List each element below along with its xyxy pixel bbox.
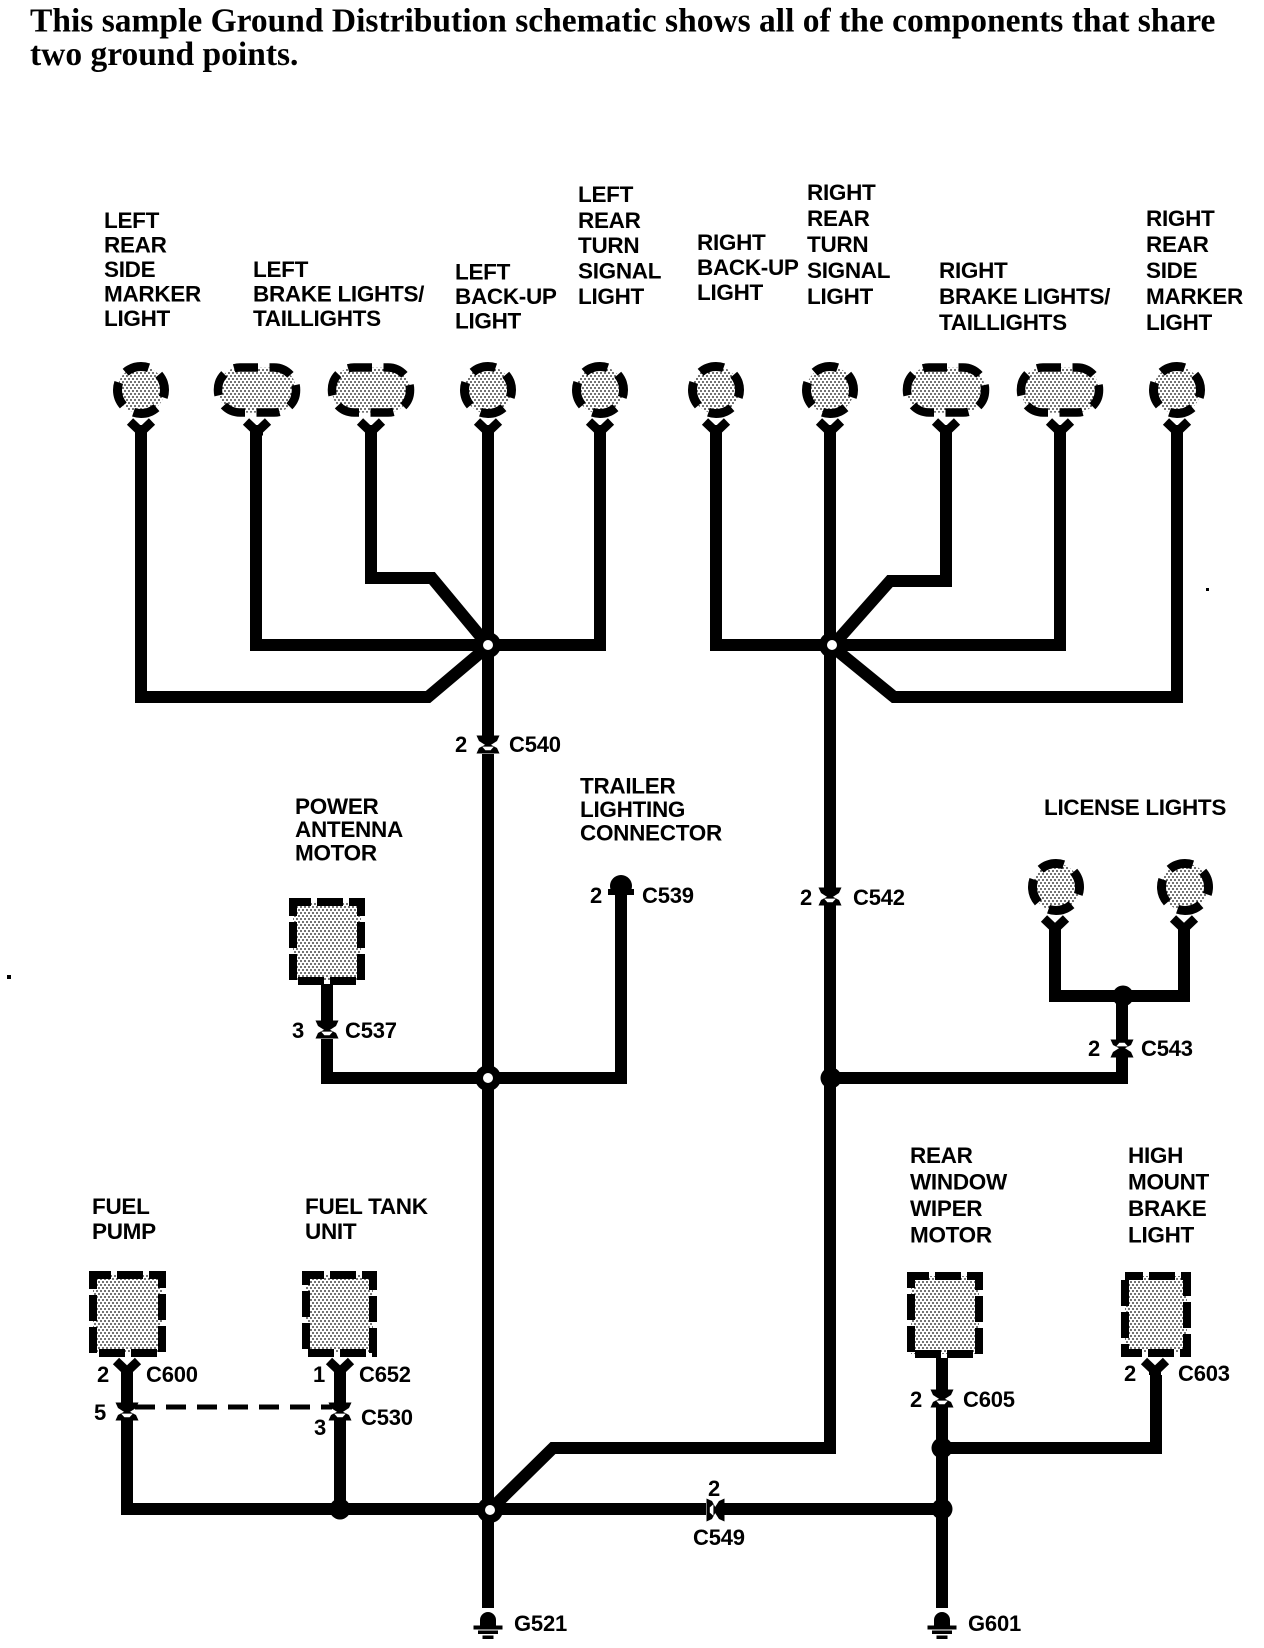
svg-text:C600: C600 bbox=[146, 1362, 198, 1387]
junction: fuel tank junction bbox=[330, 1499, 351, 1520]
lamp: right rear turn signal light bbox=[807, 367, 854, 414]
connector fork lamp terminal (right rear turn signal) bbox=[819, 422, 841, 436]
wire: rear wiper motor lead bbox=[936, 1358, 948, 1391]
svg-text:CONNECTOR: CONNECTOR bbox=[580, 821, 722, 846]
wire: left ground wire to G521 (tail) bbox=[482, 1510, 494, 1608]
pin 1 (C652) bbox=[313, 1362, 325, 1387]
connector symbol C540 bbox=[477, 736, 500, 754]
wire: right rear side marker light to right splice bbox=[834, 425, 1177, 697]
svg-text:TAILLIGHTS: TAILLIGHTS bbox=[939, 310, 1067, 335]
label: right rear turn signal light bbox=[807, 180, 891, 309]
wire: fuel tank unit lead bbox=[334, 1375, 346, 1404]
svg-text:G521: G521 bbox=[514, 1611, 567, 1636]
wire: fuel pump drop to ground bus bbox=[127, 1420, 706, 1509]
wire: power antenna motor lead bbox=[321, 984, 333, 1021]
pin 2 (C605) bbox=[910, 1387, 922, 1412]
svg-text:MARKER: MARKER bbox=[1146, 284, 1243, 309]
wire: license light right drop bbox=[1123, 928, 1184, 996]
svg-text:FUEL: FUEL bbox=[92, 1194, 150, 1219]
svg-text:LIGHT: LIGHT bbox=[578, 284, 645, 309]
connector fork lamp terminal (left brake/tail 1) bbox=[246, 422, 268, 436]
connector fork lamp terminal (left rear turn signal) bbox=[589, 422, 611, 436]
svg-text:REAR: REAR bbox=[104, 233, 167, 258]
connector fork license light left terminal bbox=[1044, 919, 1066, 933]
svg-text:2: 2 bbox=[590, 883, 602, 908]
connector fork lamp terminal (left brake/tail 2) bbox=[360, 422, 382, 436]
wire: left rear turn signal light drop bbox=[594, 425, 606, 645]
wire: power antenna motor ground branch bbox=[327, 1039, 488, 1078]
connector symbol fuel pump pin 5 connector bbox=[116, 1403, 139, 1421]
connector fork lamp terminal (left back-up) bbox=[477, 422, 499, 436]
svg-text:TURN: TURN bbox=[578, 233, 639, 258]
pin 2 (C600) bbox=[97, 1362, 109, 1387]
lamp: left rear turn signal light bbox=[577, 367, 624, 414]
lamp: right back-up light bbox=[693, 367, 740, 414]
pin 2 (C603) bbox=[1124, 1361, 1136, 1386]
svg-text:LICENSE LIGHTS: LICENSE LIGHTS bbox=[1044, 795, 1226, 820]
svg-text:UNIT: UNIT bbox=[305, 1219, 357, 1244]
connector label C543 bbox=[1141, 1036, 1193, 1061]
junction: wiper/high-mount junction bbox=[932, 1438, 953, 1459]
junction (splice): central ground bus splice G521 node bbox=[477, 1497, 503, 1523]
connector label C603 bbox=[1178, 1361, 1230, 1386]
lamp: left brake/taillight 1 bbox=[218, 368, 296, 413]
pin 3 (C537) bbox=[292, 1018, 304, 1043]
speckle bbox=[7, 588, 1209, 979]
svg-text:2: 2 bbox=[1124, 1361, 1136, 1386]
svg-text:LEFT: LEFT bbox=[455, 260, 511, 285]
junction (splice): left upper splice bbox=[475, 632, 501, 658]
svg-text:LIGHT: LIGHT bbox=[697, 280, 764, 305]
component box: power antenna motor bbox=[293, 902, 361, 981]
svg-text:WIPER: WIPER bbox=[910, 1196, 982, 1221]
svg-text:BACK-UP: BACK-UP bbox=[697, 255, 799, 280]
connector symbol C542 bbox=[819, 888, 842, 906]
junction: right mid splice (license lights) bbox=[821, 1068, 842, 1089]
wire: high mount brake light drop bbox=[936, 1375, 1156, 1448]
label: high mount brake light bbox=[1128, 1143, 1210, 1248]
svg-text:BRAKE: BRAKE bbox=[1128, 1196, 1207, 1221]
svg-text:RIGHT: RIGHT bbox=[807, 180, 876, 205]
connector label C652 bbox=[359, 1362, 411, 1387]
connector label C530 bbox=[361, 1405, 413, 1430]
svg-text:two ground points.: two ground points. bbox=[30, 36, 298, 73]
pin 2 (C540) bbox=[455, 732, 467, 757]
connector fork connector C600 terminal bbox=[116, 1361, 138, 1375]
wire: right upper bus bbox=[710, 639, 1066, 651]
label: trailer lighting connector bbox=[580, 774, 722, 846]
pin 3 (C530) bbox=[314, 1415, 326, 1440]
component box: high mount brake light bbox=[1125, 1276, 1187, 1353]
svg-text:C530: C530 bbox=[361, 1405, 413, 1430]
svg-text:MOUNT: MOUNT bbox=[1128, 1170, 1210, 1195]
connector C539 (trailer lighting, ring terminal) bbox=[608, 875, 634, 897]
svg-text:SIDE: SIDE bbox=[1146, 258, 1198, 283]
svg-text:LIGHT: LIGHT bbox=[1128, 1223, 1195, 1248]
component box: fuel pump bbox=[93, 1275, 162, 1353]
svg-text:5: 5 bbox=[94, 1400, 106, 1425]
svg-text:ANTENNA: ANTENNA bbox=[295, 817, 403, 842]
svg-text:LIGHT: LIGHT bbox=[1146, 310, 1213, 335]
connector fork lamp terminal (left rear side marker) bbox=[130, 422, 152, 436]
connector label C539 bbox=[642, 883, 694, 908]
svg-text:WINDOW: WINDOW bbox=[910, 1170, 1008, 1195]
connector fork lamp terminal (right rear side marker) bbox=[1166, 422, 1188, 436]
svg-text:RIGHT: RIGHT bbox=[697, 230, 766, 255]
lamp: left brake/taillight 2 bbox=[332, 368, 410, 413]
ground G601 bbox=[928, 1612, 957, 1639]
wire: right brake/taillight 1 to right splice bbox=[835, 425, 946, 643]
svg-text:RIGHT: RIGHT bbox=[939, 258, 1008, 283]
svg-text:TRAILER: TRAILER bbox=[580, 774, 675, 799]
svg-text:LIGHT: LIGHT bbox=[104, 306, 171, 331]
label: fuel tank unit bbox=[305, 1194, 429, 1244]
svg-text:FUEL TANK: FUEL TANK bbox=[305, 1194, 429, 1219]
lamp: license light left bbox=[1033, 864, 1080, 911]
pin 2 (C549) bbox=[708, 1476, 720, 1501]
svg-text:REAR: REAR bbox=[910, 1143, 973, 1168]
label: right rear side marker light bbox=[1146, 206, 1243, 335]
connector label C542 bbox=[853, 885, 905, 910]
wire: right rear turn signal main ground wire (upper) bbox=[824, 425, 836, 889]
lamp: right brake/taillight 2 bbox=[1021, 368, 1099, 413]
svg-text:2: 2 bbox=[1088, 1036, 1100, 1061]
svg-text:LIGHT: LIGHT bbox=[807, 284, 874, 309]
svg-text:2: 2 bbox=[455, 732, 467, 757]
svg-text:3: 3 bbox=[314, 1415, 326, 1440]
lamp: left back-up light bbox=[465, 367, 512, 414]
connector label C549 bbox=[693, 1525, 745, 1550]
connector fork connector C603 terminal bbox=[1144, 1361, 1166, 1375]
svg-text:LEFT: LEFT bbox=[253, 257, 309, 282]
connector fork connector C652 terminal bbox=[329, 1361, 351, 1375]
connector fork license light right terminal bbox=[1173, 919, 1195, 933]
svg-text:1: 1 bbox=[313, 1362, 325, 1387]
connector symbol C543 bbox=[1111, 1040, 1134, 1058]
title text bbox=[30, 3, 1215, 74]
svg-text:MOTOR: MOTOR bbox=[910, 1223, 992, 1248]
wire: left brake/taillight 2 to left splice bbox=[371, 425, 486, 643]
component box: rear window wiper motor bbox=[911, 1276, 979, 1354]
connector symbol C537 bbox=[316, 1021, 339, 1039]
wire: fuel pump lead bbox=[121, 1375, 133, 1404]
wire: right main ground wire (below C542) bbox=[492, 905, 830, 1508]
label: left brake lights/taillights bbox=[253, 257, 425, 331]
svg-text:MARKER: MARKER bbox=[104, 282, 201, 307]
svg-text:3: 3 bbox=[292, 1018, 304, 1043]
wire: license lights ground branch bbox=[831, 1056, 1122, 1078]
lamp: left rear side marker light bbox=[118, 367, 165, 414]
lamp: right brake/taillight 1 bbox=[907, 368, 985, 413]
label: license lights bbox=[1044, 795, 1226, 820]
connector label C605 bbox=[963, 1387, 1015, 1412]
svg-text:REAR: REAR bbox=[578, 208, 641, 233]
svg-text:2: 2 bbox=[708, 1476, 720, 1501]
svg-text:SIGNAL: SIGNAL bbox=[807, 258, 891, 283]
svg-text:LEFT: LEFT bbox=[578, 182, 634, 207]
svg-text:POWER: POWER bbox=[295, 794, 379, 819]
svg-text:2: 2 bbox=[97, 1362, 109, 1387]
svg-text:G601: G601 bbox=[968, 1611, 1021, 1636]
svg-text:2: 2 bbox=[910, 1387, 922, 1412]
svg-text:LIGHT: LIGHT bbox=[455, 309, 522, 334]
label: left back-up light bbox=[455, 260, 557, 334]
svg-text:RIGHT: RIGHT bbox=[1146, 206, 1215, 231]
svg-text:REAR: REAR bbox=[1146, 232, 1209, 257]
svg-text:BRAKE LIGHTS/: BRAKE LIGHTS/ bbox=[253, 282, 425, 307]
svg-text:C542: C542 bbox=[853, 885, 905, 910]
svg-text:SIGNAL: SIGNAL bbox=[578, 259, 662, 284]
lamp: right rear side marker light bbox=[1154, 367, 1201, 414]
wire: fuel tank unit drop bbox=[334, 1420, 346, 1515]
wire: left upper bus bbox=[250, 639, 606, 651]
label: left rear turn signal light bbox=[578, 182, 662, 309]
svg-text:C539: C539 bbox=[642, 883, 694, 908]
ground label G521 bbox=[514, 1611, 567, 1636]
svg-text:C537: C537 bbox=[345, 1018, 397, 1043]
svg-text:HIGH: HIGH bbox=[1128, 1143, 1183, 1168]
wire: left back-up light main ground wire (upper) bbox=[482, 425, 494, 736]
junction (splice): right upper splice bbox=[819, 632, 845, 658]
ground G521 bbox=[474, 1612, 503, 1639]
connector fork lamp terminal (right brake/tail 1) bbox=[935, 422, 957, 436]
svg-text:TAILLIGHTS: TAILLIGHTS bbox=[253, 306, 381, 331]
ground label G601 bbox=[968, 1611, 1021, 1636]
svg-text:REAR: REAR bbox=[807, 206, 870, 231]
junction: license lights junction bbox=[1113, 986, 1134, 1007]
label: right back-up light bbox=[697, 230, 799, 305]
svg-text:LEFT: LEFT bbox=[104, 208, 160, 233]
svg-text:This sample Ground Distributio: This sample Ground Distribution schemati… bbox=[30, 3, 1215, 40]
pin 5 (fuel pump) bbox=[94, 1400, 106, 1425]
connector symbol C605 bbox=[931, 1390, 954, 1408]
svg-text:PUMP: PUMP bbox=[92, 1219, 156, 1244]
svg-text:2: 2 bbox=[800, 885, 812, 910]
connector symbol C530 bbox=[329, 1403, 352, 1421]
wire: license lights lead to C543 bbox=[1116, 996, 1128, 1040]
wire: right back-up light drop bbox=[710, 425, 722, 645]
svg-text:C540: C540 bbox=[509, 732, 561, 757]
lamp: license light right bbox=[1162, 864, 1209, 911]
svg-text:C652: C652 bbox=[359, 1362, 411, 1387]
svg-text:C549: C549 bbox=[693, 1525, 745, 1550]
wire: left rear side marker light to left splice bbox=[141, 425, 486, 697]
wire: license light left drop bbox=[1055, 928, 1123, 996]
dashed link: fuel pump pin 5 to C530 bbox=[135, 1405, 332, 1410]
wire: left brake/taillight 1 to left splice bbox=[250, 425, 262, 645]
connector label C600 bbox=[146, 1362, 198, 1387]
svg-text:SIDE: SIDE bbox=[104, 257, 156, 282]
label: rear window wiper motor bbox=[910, 1143, 1008, 1248]
connector symbol C549 bbox=[707, 1499, 725, 1522]
pin 2 (C539) bbox=[590, 883, 602, 908]
wire: trailer lighting connector ground branch bbox=[494, 893, 621, 1078]
component box: fuel tank unit bbox=[306, 1275, 373, 1353]
pin 2 (C542) bbox=[800, 885, 812, 910]
svg-text:C603: C603 bbox=[1178, 1361, 1230, 1386]
connector fork lamp terminal (right back-up) bbox=[705, 422, 727, 436]
svg-text:C543: C543 bbox=[1141, 1036, 1193, 1061]
connector fork lamp terminal (right brake/tail 2) bbox=[1049, 422, 1071, 436]
pin 2 (C543) bbox=[1088, 1036, 1100, 1061]
svg-text:BACK-UP: BACK-UP bbox=[455, 284, 557, 309]
label: power antenna motor bbox=[295, 794, 403, 866]
svg-text:C605: C605 bbox=[963, 1387, 1015, 1412]
wire: rear wiper ground wire to G601 bbox=[936, 1407, 948, 1608]
svg-text:TURN: TURN bbox=[807, 232, 868, 257]
label: fuel pump bbox=[92, 1194, 156, 1244]
connector label C537 bbox=[345, 1018, 397, 1043]
wire: right brake/taillight 2 drop bbox=[1054, 425, 1066, 645]
svg-text:LIGHTING: LIGHTING bbox=[580, 797, 685, 822]
junction (splice): left mid splice (power antenna/trailer) bbox=[475, 1065, 501, 1091]
label: left rear side marker light bbox=[104, 208, 201, 331]
connector label C540 bbox=[509, 732, 561, 757]
wire: ground bus right of C549 bbox=[724, 1503, 948, 1515]
svg-text:MOTOR: MOTOR bbox=[295, 841, 377, 866]
label: right brake lights/taillights bbox=[939, 258, 1111, 335]
junction: wiper/ground-bus junction bbox=[932, 1499, 953, 1520]
wire: left main ground wire (below C540) bbox=[482, 754, 494, 1608]
svg-text:BRAKE LIGHTS/: BRAKE LIGHTS/ bbox=[939, 284, 1111, 309]
